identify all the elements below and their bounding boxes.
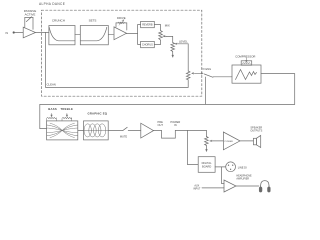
op-amp drive: [114, 20, 127, 40]
wire: [108, 129, 122, 131]
speaker: [253, 135, 260, 147]
wire: [240, 140, 253, 142]
op-amp U1 preamp: [23, 17, 35, 38]
label LINE DI: [238, 165, 247, 169]
svg-text:CRUNCH: CRUNCH: [52, 18, 65, 22]
wire: [78, 129, 84, 131]
compressor knob: [241, 58, 252, 65]
svg-text:LEVEL: LEVEL: [179, 40, 188, 44]
svg-text:REVERB: REVERB: [142, 24, 153, 27]
label COMPRESSOR: [235, 55, 255, 59]
wire to tone box: [40, 104, 47, 128]
label MUTE: [120, 135, 128, 139]
label ALPHA DANCE: [39, 2, 65, 6]
svg-text:IN: IN: [174, 123, 177, 127]
svg-text:BOARD: BOARD: [202, 164, 211, 168]
label GRAPHIC EQ: [87, 111, 107, 115]
op-amp headphone: [224, 180, 236, 192]
wire compressor out: [261, 74, 295, 105]
label AUX INPUT: [193, 185, 201, 191]
svg-text:MIX: MIX: [165, 23, 170, 27]
op-amp preout: [141, 123, 154, 138]
svg-text:TREBLE: TREBLE: [60, 107, 73, 111]
block CRUNCH: [49, 26, 75, 45]
connector XLR: [226, 162, 236, 172]
wire: [213, 76, 232, 78]
wire: [15, 31, 24, 33]
wire: [108, 33, 113, 35]
svg-text:ALPHA DANCE: ALPHA DANCE: [39, 2, 65, 6]
svg-text:SETS: SETS: [89, 18, 97, 22]
label LEVEL: [179, 40, 188, 44]
label CRUNCH: [52, 18, 65, 22]
node IN: [13, 31, 15, 33]
label CLEAN: [47, 83, 56, 87]
wire preout powerin loop: [154, 130, 207, 138]
svg-text:ACTIVE: ACTIVE: [25, 13, 36, 17]
wire to digital: [187, 130, 198, 164]
switch FX: [195, 73, 213, 105]
svg-text:POWER: POWER: [225, 141, 234, 143]
potentiometer treble: [62, 113, 72, 121]
wire: [178, 43, 188, 45]
node junction: [45, 32, 47, 87]
svg-text:IN: IN: [6, 31, 9, 35]
label IN: [6, 31, 9, 35]
block CHORUS: [141, 41, 155, 47]
switch mute: [123, 127, 141, 130]
label SPEAKER OUTPUTS: [250, 126, 262, 132]
wire to headphone amp: [222, 167, 224, 184]
wire join: [154, 25, 160, 45]
op-amp power: [223, 132, 240, 150]
potentiometer bass: [47, 113, 57, 121]
block tone: [47, 121, 78, 140]
svg-text:MUTE: MUTE: [120, 135, 128, 139]
label FX ENG: [201, 67, 211, 71]
wire return: [40, 103, 295, 105]
block graphic eq: [84, 121, 109, 140]
svg-text:OUT: OUT: [157, 123, 163, 127]
block digital board: [198, 157, 215, 173]
potentiometer clean level: [186, 44, 195, 88]
wire: [127, 33, 138, 35]
svg-text:OUTPUTS: OUTPUTS: [250, 129, 262, 132]
label SETS: [89, 18, 97, 22]
wire CLEAN: [46, 86, 189, 88]
svg-text:FX ENG: FX ENG: [201, 67, 211, 71]
svg-text:AMPLIFIER: AMPLIFIER: [236, 177, 249, 180]
headphones: [259, 181, 270, 192]
block compressor: [232, 65, 261, 83]
label TREBLE: [60, 107, 73, 111]
svg-text:DRIVE: DRIVE: [117, 16, 126, 20]
potentiometer master: [205, 130, 213, 151]
label PASSIVE ACTIVE: [24, 9, 37, 17]
label POWER IN: [170, 120, 180, 127]
wire split: [138, 25, 141, 45]
wire: [213, 140, 224, 142]
wire: [236, 185, 259, 187]
block REVERB: [141, 21, 155, 27]
svg-text:CLEAN: CLEAN: [47, 83, 56, 87]
wire preamp out: [36, 31, 49, 33]
block SETS: [80, 26, 108, 45]
potentiometer LEVEL: [171, 43, 178, 58]
label DRIVE: [117, 16, 126, 20]
svg-text:INPUT: INPUT: [193, 187, 201, 190]
dashed box channels: [42, 10, 202, 96]
potentiometer MIX: [159, 31, 167, 41]
wire: [215, 166, 225, 168]
svg-text:BASS: BASS: [48, 107, 57, 111]
svg-text:GRAPHIC EQ: GRAPHIC EQ: [87, 111, 107, 115]
svg-text:COMPRESSOR: COMPRESSOR: [235, 55, 255, 59]
wire: [167, 36, 173, 42]
wire AUX: [202, 187, 224, 189]
label MIX: [165, 23, 170, 27]
label PRE OUT: [157, 120, 163, 127]
svg-text:LINE DI: LINE DI: [238, 165, 247, 169]
label HEADPHONE AMPLIFIER: [236, 175, 252, 181]
svg-text:CHORUS: CHORUS: [142, 44, 153, 47]
wire: [75, 33, 80, 35]
label BASS: [48, 107, 57, 111]
